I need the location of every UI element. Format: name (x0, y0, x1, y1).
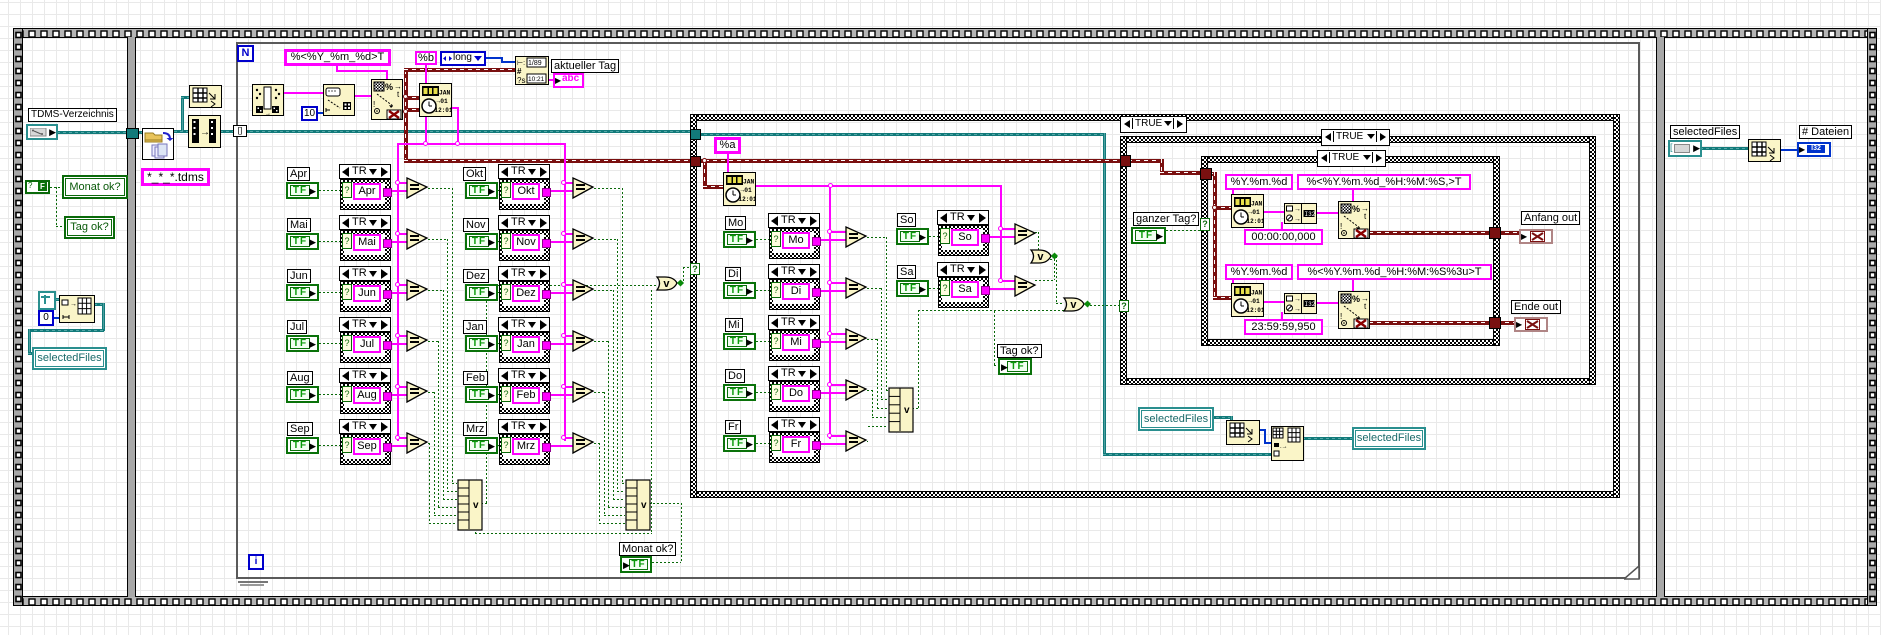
svg-text:→01: →01 (1249, 298, 1261, 305)
svg-text:12:01: 12:01 (1247, 307, 1265, 314)
svg-text:JAN: JAN (439, 90, 451, 97)
svg-text:10:21: 10:21 (528, 76, 545, 83)
svg-text:→: → (1294, 306, 1301, 313)
svg-text:v: v (1037, 251, 1044, 263)
svg-text:12:01: 12:01 (1247, 218, 1265, 225)
svg-text:→01: →01 (1249, 209, 1261, 216)
svg-text:→: → (200, 127, 210, 138)
svg-text:I32: I32 (1305, 211, 1316, 218)
svg-text:v: v (1070, 299, 1077, 311)
svg-text:→01: →01 (741, 187, 753, 194)
svg-text:?s: ?s (517, 76, 525, 85)
svg-text:→: → (70, 301, 77, 308)
svg-text:→01: →01 (437, 98, 449, 105)
svg-text:v: v (663, 278, 670, 290)
svg-text:→: → (265, 111, 271, 116)
svg-text:%: % (385, 82, 393, 92)
svg-text:JAN: JAN (1251, 290, 1263, 297)
svg-text:!: ! (1340, 222, 1342, 231)
svg-text:JAN: JAN (743, 179, 755, 186)
svg-text:#: # (517, 67, 522, 76)
svg-text:→: → (1294, 216, 1301, 223)
svg-text:→: → (1294, 206, 1301, 213)
svg-text:1/89: 1/89 (528, 60, 542, 67)
svg-text:!: ! (1340, 312, 1342, 321)
svg-text:12:01: 12:01 (739, 196, 757, 203)
svg-text:I32: I32 (1305, 301, 1316, 308)
svg-text:%: % (1352, 204, 1360, 214)
svg-text:→: → (1294, 296, 1301, 303)
svg-text:.→: .→ (1280, 444, 1288, 450)
svg-text:v: v (904, 405, 910, 416)
svg-text:JAN: JAN (1251, 201, 1263, 208)
svg-text:%: % (1352, 294, 1360, 304)
svg-text:!: ! (373, 100, 375, 109)
svg-text:v: v (473, 500, 479, 511)
svg-text:v: v (641, 500, 647, 511)
svg-text:12:01: 12:01 (435, 107, 453, 114)
svg-text:⊢:: ⊢: (517, 60, 525, 67)
